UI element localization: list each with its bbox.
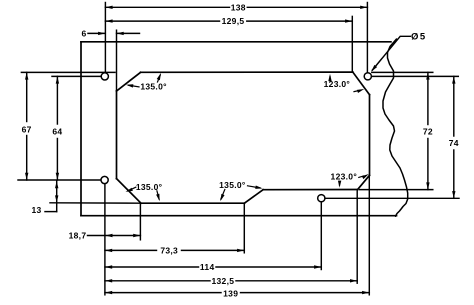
- svg-text:135.0°: 135.0°: [219, 180, 246, 190]
- hole top-left: [101, 73, 108, 80]
- svg-text:64: 64: [52, 127, 62, 137]
- bottom extension x=321.3: [320, 202, 322, 270]
- dimension 72 right: [427, 72, 429, 124]
- extension line x=116.5 for 6 dim: [116, 30, 118, 91]
- right extension y=198.3: [325, 197, 459, 199]
- left extension line y=72.4: [21, 71, 115, 73]
- leader 135.0 top-left to top edge: [158, 75, 161, 82]
- svg-text:13: 13: [31, 205, 41, 215]
- dimension 129,5 top: [105, 20, 219, 22]
- arrowheads dimension 73,3: [105, 249, 112, 252]
- svg-text:67: 67: [22, 124, 32, 134]
- right extension y=189.6: [360, 189, 433, 191]
- plate bottom edge: [81, 215, 397, 217]
- arrowheads dimension 72: [426, 72, 429, 79]
- cutout step chamfer 135deg: [244, 190, 263, 204]
- dimension 138 top: [105, 6, 229, 8]
- leader 135.0 bottom-mid to edge: [221, 190, 225, 200]
- arrowhead leader 135.0 bottom-left edge: [156, 194, 161, 202]
- break line (wavy): [383, 39, 408, 216]
- dimension 13 left: [56, 181, 58, 212]
- svg-text:135.0°: 135.0°: [140, 81, 167, 91]
- svg-text:18,7: 18,7: [69, 231, 87, 241]
- arrowheads dimension 129,5: [105, 19, 112, 22]
- bottom extension x=369.3: [368, 176, 370, 295]
- svg-text:74: 74: [449, 138, 459, 148]
- extension line x=352.3 top: [351, 16, 353, 71]
- cutout bottom-left chamfer 135deg: [117, 179, 142, 204]
- arrowheads dimension 18,7: [105, 234, 112, 237]
- svg-text:129,5: 129,5: [222, 16, 245, 26]
- cutout top-right chamfer 123deg: [353, 72, 370, 95]
- left extension line y=76.4: [52, 75, 101, 77]
- svg-text:72: 72: [423, 127, 433, 137]
- right extension y=72.4: [372, 71, 433, 73]
- cutout top edge: [141, 71, 353, 73]
- leader 123.0 top-right to top edge: [329, 77, 331, 82]
- arrowheads dimension 6 (outside): [98, 32, 105, 35]
- svg-text:139: 139: [223, 288, 238, 298]
- cutout top-left chamfer 135deg: [117, 72, 141, 91]
- svg-text:6: 6: [81, 29, 86, 39]
- right extension y=76.4: [372, 75, 459, 77]
- dimension 74 right: [453, 76, 455, 136]
- svg-text:73,3: 73,3: [160, 246, 178, 256]
- bottom extension x=357.2: [356, 191, 358, 283]
- cutout lower edge right section: [263, 189, 358, 191]
- arrowheads dimension 64: [56, 76, 59, 83]
- arrowheads dimension 13: [55, 181, 58, 188]
- leader 135.0 bottom-mid to step chamfer: [248, 186, 261, 188]
- arrowhead leader 123.0 top-right top edge: [328, 74, 331, 81]
- svg-text:123.0°: 123.0°: [331, 172, 358, 182]
- svg-text:138: 138: [231, 2, 246, 12]
- dimension 73,3 bottom: [105, 249, 157, 251]
- dimension 6 top: [88, 32, 105, 34]
- arrowhead leader 135.0 top-left chamfer: [126, 83, 134, 87]
- extension line x=367.4 top: [366, 3, 368, 73]
- svg-text:123.0°: 123.0°: [324, 79, 351, 89]
- leader 135.0 bottom-left to chamfer: [128, 187, 136, 191]
- arrowheads dimension 139: [105, 291, 112, 294]
- extension line x=105.4 top: [104, 3, 106, 73]
- dimension 64 left: [56, 76, 58, 124]
- left extension line y=180: [18, 179, 101, 181]
- plate left edge: [80, 42, 82, 216]
- arrowhead leader 135.0 bottom-mid edge: [219, 194, 225, 202]
- bottom extension x=104.9: [104, 184, 106, 295]
- hole bottom-left: [101, 176, 108, 183]
- arrowheads dimension 138: [105, 6, 112, 9]
- arrowhead leader 135.0 bottom-mid chamfer: [255, 185, 263, 190]
- dimension 132,5 bottom: [105, 280, 210, 282]
- plate top edge: [81, 41, 391, 43]
- leader 135.0 top-left to chamfer: [129, 85, 140, 87]
- arrowheads dimension 132,5: [105, 279, 112, 282]
- arrowheads dimension 67: [25, 72, 28, 79]
- bottom extension x=244.3: [243, 204, 245, 253]
- arrowhead leader 135.0 top-left top edge: [157, 72, 163, 80]
- cutout left edge: [116, 91, 118, 179]
- cutout lower edge left section: [141, 202, 244, 204]
- arrowheads dimension 114: [105, 265, 112, 268]
- arrowheads dimension 74: [452, 76, 455, 83]
- hole bottom-middle: [318, 195, 325, 202]
- svg-text:Ø5: Ø5: [411, 31, 427, 42]
- arrowhead leader 123.0 bottom-right edge: [338, 181, 342, 188]
- hole top-right diameter 5: [364, 73, 371, 80]
- cutout bottom-right chamfer 123deg: [358, 175, 370, 189]
- arrowhead leader diameter: [370, 65, 377, 73]
- svg-text:132,5: 132,5: [212, 276, 235, 286]
- extension line y=202.8 for 13: [50, 202, 141, 204]
- leader 123.0 bottom-right to corner: [359, 176, 364, 177]
- cutout right edge: [369, 95, 371, 176]
- leader diameter label: [372, 36, 410, 70]
- bottom extension x=140.4: [139, 204, 141, 240]
- dimension 18,7 bottom: [88, 235, 141, 237]
- arrowhead leader 135.0 bottom-left chamfer: [125, 188, 133, 194]
- arrowhead leader 123.0 bottom-right corner: [362, 173, 370, 180]
- svg-text:135.0°: 135.0°: [136, 182, 163, 192]
- dimension 114 bottom: [105, 266, 199, 268]
- arrowhead leader 123.0 top-right chamfer: [357, 87, 365, 93]
- leader 135.0 bottom-left to bottom edge: [157, 191, 159, 199]
- dimension 67 left: [26, 72, 28, 121]
- dimension 139 bottom: [105, 292, 221, 294]
- leader 123.0 top-right to chamfer: [354, 90, 361, 91]
- leader 123.0 bottom-right to edge: [339, 182, 341, 186]
- svg-text:114: 114: [200, 262, 215, 272]
